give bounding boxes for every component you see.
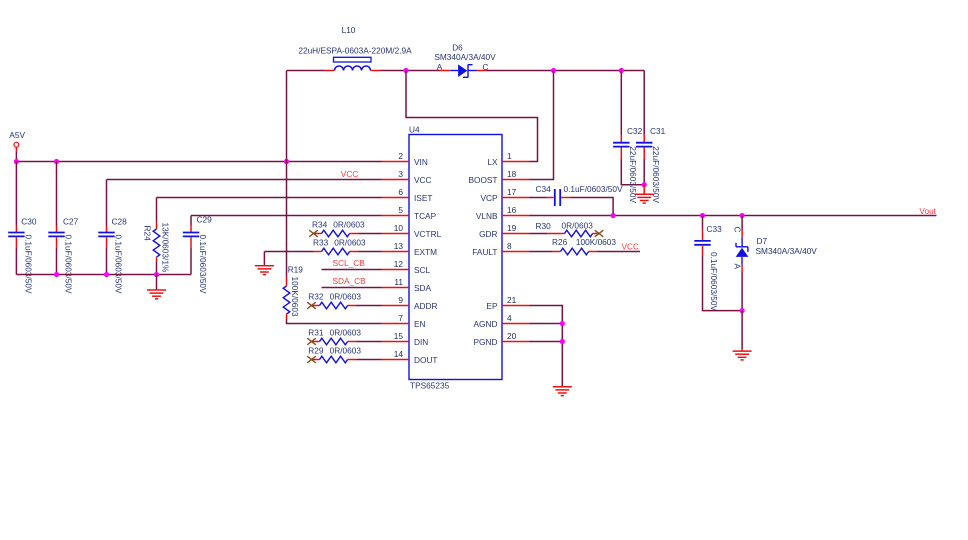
svg-text:7: 7	[398, 313, 403, 323]
svg-text:C31: C31	[650, 126, 666, 136]
svg-text:R31: R31	[308, 328, 324, 338]
svg-text:0R/0603: 0R/0603	[334, 238, 366, 248]
svg-text:VCC: VCC	[622, 241, 640, 251]
svg-text:DIN: DIN	[414, 337, 428, 347]
svg-text:SCL: SCL	[414, 265, 431, 275]
svg-text:22uH/ESPA-0603A-220M/2.9A: 22uH/ESPA-0603A-220M/2.9A	[298, 46, 412, 56]
svg-text:6: 6	[398, 187, 403, 197]
svg-text:0R/0603: 0R/0603	[330, 292, 362, 302]
svg-text:0R/0603: 0R/0603	[330, 328, 362, 338]
svg-text:SCL_CB: SCL_CB	[333, 258, 366, 268]
svg-text:1: 1	[507, 151, 512, 161]
svg-text:R19: R19	[288, 265, 304, 275]
svg-text:ISET: ISET	[414, 193, 432, 203]
svg-text:L10: L10	[342, 25, 356, 35]
svg-text:13: 13	[394, 241, 404, 251]
svg-text:0R/0603: 0R/0603	[330, 346, 362, 356]
svg-text:22uF/0603/50V: 22uF/0603/50V	[628, 146, 638, 203]
svg-text:D7: D7	[757, 236, 768, 246]
svg-text:C: C	[483, 62, 489, 72]
svg-text:21: 21	[507, 295, 517, 305]
svg-text:14: 14	[394, 349, 404, 359]
svg-text:R32: R32	[308, 292, 324, 302]
svg-text:R24: R24	[143, 226, 153, 242]
svg-text:GDR: GDR	[479, 229, 497, 239]
svg-text:3: 3	[398, 169, 403, 179]
svg-text:C27: C27	[63, 217, 79, 227]
svg-text:22uF/0603/50V: 22uF/0603/50V	[651, 146, 661, 203]
svg-text:AGND: AGND	[474, 319, 498, 329]
svg-text:0R/0603: 0R/0603	[333, 220, 365, 230]
svg-text:18: 18	[507, 169, 517, 179]
svg-text:8: 8	[507, 241, 512, 251]
svg-text:0.1uF/0603/50V: 0.1uF/0603/50V	[198, 235, 208, 295]
svg-text:0.1uF/0603/50V: 0.1uF/0603/50V	[564, 184, 624, 194]
svg-text:VCTRL: VCTRL	[414, 229, 442, 239]
svg-text:5: 5	[398, 205, 403, 215]
svg-text:13K/0603/1%: 13K/0603/1%	[161, 223, 171, 273]
svg-text:R30: R30	[536, 221, 552, 231]
svg-text:VCC: VCC	[414, 175, 432, 185]
svg-text:0.1uF/0603/50V: 0.1uF/0603/50V	[113, 235, 123, 295]
svg-text:11: 11	[394, 277, 403, 287]
svg-text:SM340A/3A/40V: SM340A/3A/40V	[756, 246, 818, 256]
svg-text:A: A	[732, 264, 742, 270]
svg-text:A: A	[437, 62, 443, 72]
svg-text:C32: C32	[627, 126, 643, 136]
svg-text:17: 17	[507, 187, 517, 197]
svg-text:C30: C30	[21, 217, 37, 227]
svg-text:A5V: A5V	[9, 130, 25, 140]
svg-text:12: 12	[394, 259, 404, 269]
svg-text:10: 10	[394, 223, 404, 233]
svg-text:EXTM: EXTM	[414, 247, 437, 257]
svg-text:0.1uF/0603/50V: 0.1uF/0603/50V	[23, 235, 33, 295]
svg-text:C: C	[732, 227, 742, 233]
svg-text:R26: R26	[552, 237, 568, 247]
svg-text:VCP: VCP	[480, 193, 498, 203]
svg-text:R33: R33	[313, 238, 329, 248]
svg-text:TPS65235: TPS65235	[410, 381, 450, 391]
svg-text:16: 16	[507, 205, 517, 215]
svg-text:0R/0603: 0R/0603	[562, 221, 594, 231]
svg-text:BOOST: BOOST	[468, 175, 497, 185]
svg-text:R29: R29	[308, 346, 324, 356]
svg-text:9: 9	[398, 295, 403, 305]
svg-text:PGND: PGND	[474, 337, 498, 347]
svg-text:15: 15	[394, 331, 404, 341]
svg-text:EP: EP	[486, 301, 498, 311]
svg-text:VLNB: VLNB	[476, 211, 498, 221]
svg-text:VIN: VIN	[414, 157, 428, 167]
svg-text:20: 20	[507, 331, 517, 341]
svg-text:4: 4	[507, 313, 512, 323]
svg-text:TCAP: TCAP	[414, 211, 437, 221]
svg-text:SM340A/3A/40V: SM340A/3A/40V	[434, 52, 496, 62]
svg-text:0.1uF/0603/50V: 0.1uF/0603/50V	[63, 235, 73, 295]
svg-text:C34: C34	[536, 184, 552, 194]
svg-text:100K/0603: 100K/0603	[290, 277, 300, 318]
svg-text:0.1uF/0603/50V: 0.1uF/0603/50V	[709, 252, 719, 312]
svg-text:100K/0603: 100K/0603	[576, 237, 617, 247]
svg-text:Vout: Vout	[919, 206, 936, 216]
svg-text:SDA: SDA	[414, 283, 432, 293]
svg-text:SDA_CB: SDA_CB	[333, 276, 367, 286]
svg-text:EN: EN	[414, 319, 426, 329]
svg-text:C33: C33	[707, 224, 723, 234]
svg-text:VCC: VCC	[341, 169, 359, 179]
svg-text:LX: LX	[487, 157, 498, 167]
svg-text:U4: U4	[409, 124, 420, 134]
svg-text:ADDR: ADDR	[414, 301, 438, 311]
svg-text:2: 2	[398, 151, 403, 161]
svg-text:C29: C29	[197, 215, 213, 225]
svg-text:R34: R34	[312, 220, 328, 230]
svg-text:19: 19	[507, 223, 517, 233]
svg-text:DOUT: DOUT	[414, 355, 438, 365]
svg-text:C28: C28	[112, 217, 128, 227]
svg-text:FAULT: FAULT	[472, 247, 497, 257]
